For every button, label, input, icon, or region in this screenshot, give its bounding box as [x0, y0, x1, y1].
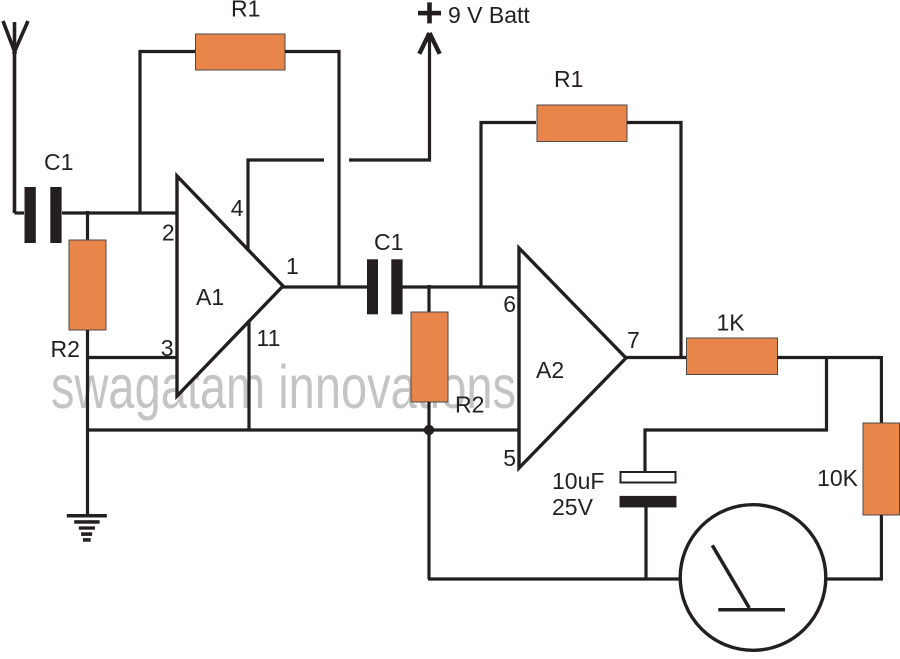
wire ground bus — [86, 428, 519, 431]
wire antenna to C1 — [15, 211, 25, 214]
wire R1 second left — [481, 123, 536, 288]
svg-text:R1: R1 — [231, 0, 260, 22]
antenna — [3, 21, 28, 213]
wire C1 to A2 pin 6 — [402, 285, 519, 288]
svg-text:10uF: 10uF — [552, 468, 604, 494]
svg-text:9 V Batt: 9 V Batt — [448, 2, 530, 28]
capacitor 10uF — [620, 472, 677, 507]
wire pin 4 — [248, 160, 324, 251]
resistor 1K — [687, 338, 778, 375]
resistor R2 (second) — [411, 312, 448, 402]
svg-text:1K: 1K — [717, 310, 746, 336]
wire R2 top stub — [86, 211, 89, 240]
resistor 10K — [863, 423, 900, 515]
resistor R2 (input) — [69, 240, 106, 330]
resistor R1 (A2 feedback) — [537, 105, 627, 142]
meter M1 — [680, 505, 826, 651]
svg-text:R2: R2 — [51, 336, 80, 362]
svg-text:C1: C1 — [44, 149, 73, 175]
wire capacitor bottom — [644, 506, 647, 579]
op-amp A1 — [177, 176, 283, 396]
wire A1 output — [283, 285, 367, 288]
capacitor C1 (input) — [25, 187, 62, 243]
wire R2 to ground — [86, 330, 89, 515]
svg-text:5: 5 — [503, 445, 516, 471]
wire supply segment — [349, 34, 430, 160]
svg-text:11: 11 — [257, 325, 281, 351]
svg-text:7: 7 — [627, 327, 640, 353]
ground — [67, 514, 107, 542]
resistor R1 (A1 feedback) — [196, 34, 286, 70]
supply arrowhead — [419, 33, 439, 54]
svg-text:1: 1 — [286, 253, 299, 279]
capacitor C1 (coupling) — [367, 259, 403, 314]
wire pin 11 — [247, 320, 250, 430]
wire 1K to right — [777, 356, 881, 359]
wire R1 second right — [627, 123, 681, 359]
wire R2 second top stub — [427, 285, 430, 312]
wire C1 to A1 pin 2 — [62, 211, 177, 214]
svg-text:R2: R2 — [455, 392, 484, 418]
svg-text:A2: A2 — [536, 357, 564, 383]
wire R1 left — [140, 52, 195, 214]
wire pin 3 — [86, 356, 177, 359]
wire R2 second down to bottom — [427, 402, 430, 579]
plus symbol — [418, 2, 441, 23]
svg-text:C1: C1 — [374, 229, 403, 255]
svg-text:A1: A1 — [196, 284, 224, 310]
svg-text:4: 4 — [231, 195, 244, 221]
wire A2 output — [626, 356, 686, 359]
wire bottom bus — [428, 577, 680, 580]
op-amp A2 — [519, 248, 626, 468]
svg-text:2: 2 — [162, 220, 175, 246]
svg-text:10K: 10K — [817, 465, 859, 491]
wire 10K to meter — [827, 515, 881, 579]
svg-text:25V: 25V — [552, 494, 594, 520]
wire R1 right to A1 output — [285, 52, 339, 288]
svg-text:6: 6 — [503, 291, 516, 317]
wire to 10K — [880, 356, 883, 423]
junction node — [424, 425, 434, 435]
svg-text:3: 3 — [161, 335, 174, 361]
wire to capacitor top — [645, 358, 827, 473]
svg-text:R1: R1 — [554, 66, 583, 92]
